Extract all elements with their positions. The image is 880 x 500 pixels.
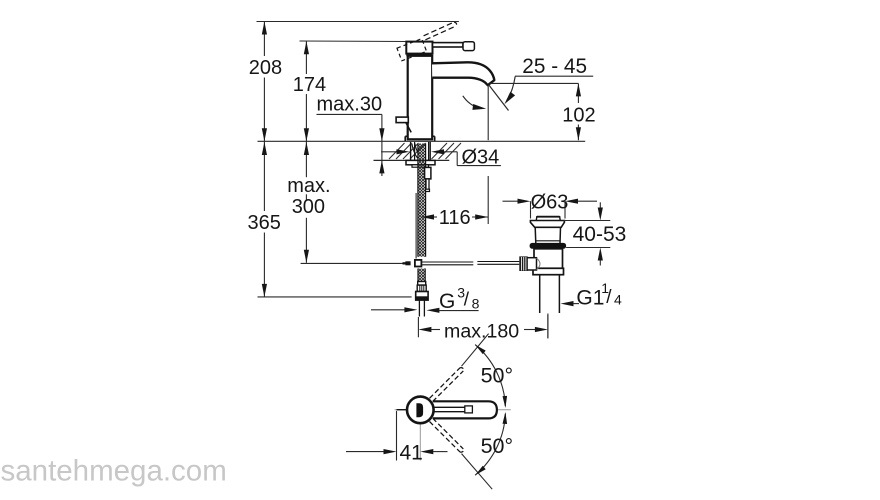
drain body — [533, 249, 564, 275]
dimension max.300 extension line — [301, 262, 403, 264]
spout swivel arc arrow — [463, 96, 486, 110]
top view vertical centerline — [419, 424, 421, 461]
dimension Ø63 — [503, 191, 598, 218]
dimension 102 — [562, 83, 595, 140]
lower 50 degree arc — [475, 412, 513, 475]
faucet centerline — [419, 125, 421, 142]
G3/8 hose connector — [416, 282, 428, 301]
svg-text:max.30: max.30 — [317, 94, 383, 116]
svg-text:300: 300 — [292, 196, 325, 218]
top view lever swung down dashed — [430, 418, 464, 452]
braided supply hose upper — [418, 144, 426, 257]
lever handle rod — [433, 42, 475, 51]
svg-text:50°: 50° — [481, 364, 514, 388]
drain plug cap — [536, 216, 560, 221]
dimension 365 — [248, 141, 281, 297]
top view lower construction line — [462, 454, 493, 490]
top view lever swung up dashed — [430, 368, 464, 402]
svg-text:40-53: 40-53 — [573, 223, 627, 246]
drain pivot housing — [527, 258, 540, 270]
lever cap — [406, 42, 432, 57]
dimension 208 — [249, 22, 282, 142]
drain centerline extension — [547, 314, 549, 339]
dimension 208 extension line — [257, 21, 459, 23]
top view cartridge slot — [416, 403, 423, 417]
svg-text:365: 365 — [248, 212, 281, 234]
svg-text:208: 208 — [249, 57, 282, 79]
pop-up rod housing — [425, 167, 431, 191]
svg-text:116: 116 — [439, 207, 471, 229]
svg-text:max.180: max.180 — [444, 321, 519, 343]
counter top line — [258, 140, 586, 142]
dimension 41 — [346, 411, 448, 465]
dimension 365 bottom extension line — [258, 296, 412, 298]
svg-text:41: 41 — [400, 442, 423, 465]
top view upper construction line — [462, 334, 489, 367]
pop-up vertical rod — [415, 193, 417, 259]
braided hose lower — [418, 269, 425, 282]
svg-text:102: 102 — [562, 105, 595, 127]
svg-text:Ø34: Ø34 — [462, 147, 500, 169]
dimension G3/8 callout — [371, 285, 480, 313]
svg-text:50°: 50° — [481, 434, 514, 458]
hose bend lines in shank — [412, 144, 418, 159]
stream angle leader arrow — [504, 76, 515, 104]
lever cap raised dashed outline — [397, 39, 427, 61]
top view horizontal centerline — [395, 409, 511, 411]
svg-text:4: 4 — [614, 292, 622, 308]
dimension Ø34 callout — [381, 147, 501, 169]
dimension 40-53 — [564, 202, 627, 265]
dimension 102 top extension line — [490, 82, 579, 84]
rod coupling block — [403, 260, 422, 267]
faucet base flange — [405, 136, 435, 141]
drain neck — [535, 227, 560, 243]
drain flange — [530, 221, 564, 228]
svg-text:/: / — [606, 287, 612, 308]
horizontal pop-up linkage rod — [422, 262, 520, 265]
dimension 25-45 label — [515, 55, 593, 78]
drain pivot knurled nut — [519, 256, 527, 271]
top view lever — [433, 401, 497, 418]
stream direction line — [489, 85, 509, 111]
dimension 174 — [293, 41, 326, 141]
svg-text:8: 8 — [472, 295, 480, 311]
mounting shank — [411, 142, 431, 160]
upper 50 degree arc — [475, 345, 513, 408]
dimension 116 — [421, 207, 488, 229]
counter bottom line — [374, 159, 450, 161]
dimension 174 extension line — [300, 40, 407, 43]
svg-text:santehmega.com: santehmega.com — [1, 455, 227, 488]
drain rubber seal — [530, 243, 567, 249]
top view left tick — [397, 409, 408, 411]
top view faucet body circle — [407, 397, 434, 424]
svg-text:Ø63: Ø63 — [531, 191, 569, 213]
dimension max.300 — [287, 141, 330, 262]
counter hatching right — [432, 143, 448, 159]
supply tail pipe — [419, 300, 424, 316]
svg-text:max.: max. — [287, 175, 330, 197]
svg-text:25 - 45: 25 - 45 — [522, 55, 587, 78]
dimension max.180 — [418, 315, 548, 343]
spout — [432, 62, 494, 85]
locknut — [406, 160, 435, 167]
dimension max.30 — [317, 94, 385, 176]
spout tip extension line — [487, 85, 489, 224]
faucet body — [408, 56, 433, 140]
svg-text:/: / — [464, 290, 470, 311]
dimension G1 1/4 callout — [561, 280, 623, 310]
drain tail pipe — [540, 275, 560, 313]
counter hatching left — [389, 143, 405, 159]
svg-text:174: 174 — [293, 74, 326, 96]
svg-text:G: G — [439, 290, 455, 313]
lever raised position dashed — [424, 22, 457, 40]
pop-up pull knob — [396, 117, 411, 132]
